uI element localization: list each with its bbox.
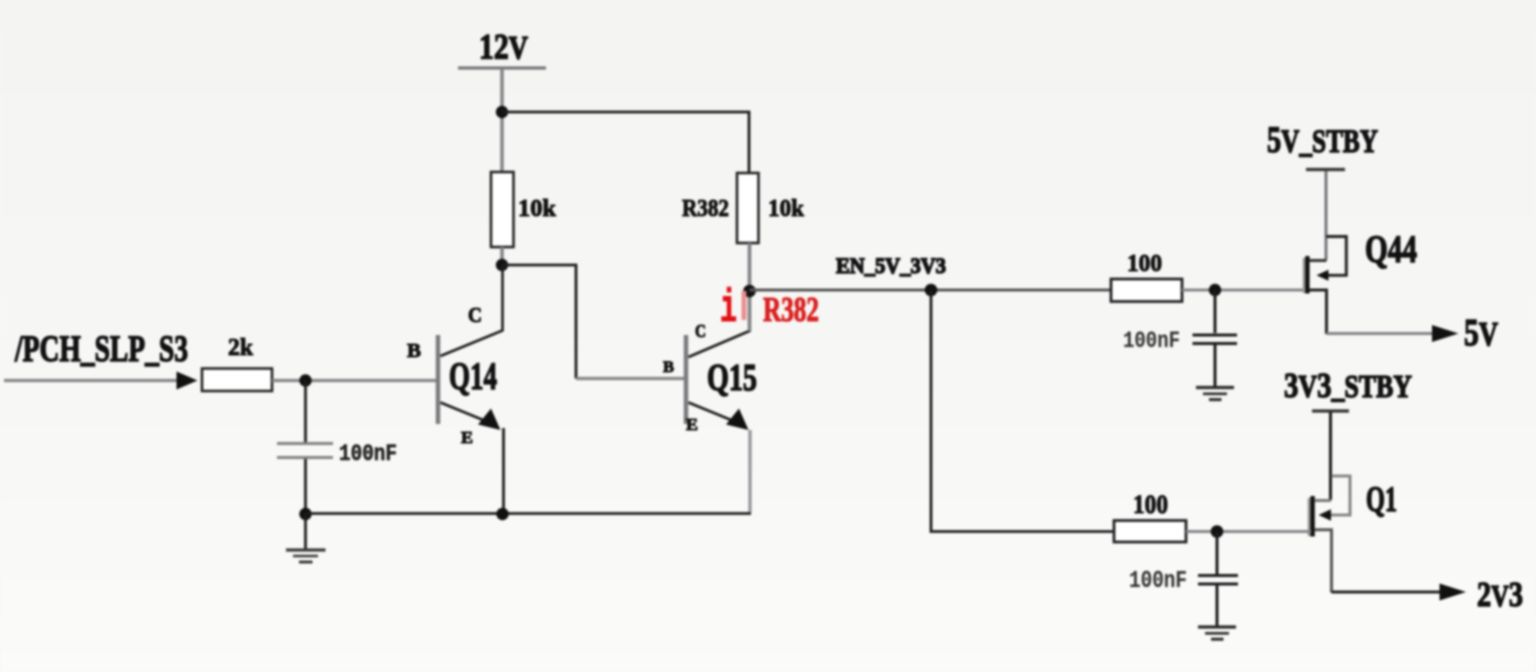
svg-text:E: E	[461, 428, 473, 447]
power 5V_STBY bar	[1306, 168, 1345, 171]
svg-text:C: C	[468, 303, 482, 327]
body arrow	[1317, 270, 1329, 281]
wire 5V out	[1327, 332, 1435, 335]
node Q14 collector	[496, 259, 508, 271]
wire 5V_STBY down	[1325, 171, 1328, 260]
emitter wire down	[502, 428, 505, 513]
arrow 2V3	[1440, 584, 1467, 601]
wire input	[4, 379, 180, 382]
svg-text:Q14: Q14	[449, 355, 497, 398]
node gate/cap lower	[1211, 525, 1224, 538]
ground upper right	[1196, 388, 1234, 400]
node R382/Q15 collector	[743, 285, 756, 298]
wire 10k bottom stub	[500, 247, 504, 265]
node Q14 emitter rail	[496, 508, 508, 520]
svg-text:100: 100	[1127, 251, 1162, 277]
arrow 5V	[1432, 325, 1459, 342]
transistor Q15	[686, 331, 751, 513]
source connector	[1315, 530, 1332, 593]
svg-text:10k: 10k	[518, 196, 557, 222]
svg-text:i: i	[720, 283, 737, 335]
wire collector to Q15 base	[502, 265, 576, 379]
resistor R382 10k	[737, 173, 759, 243]
source connector	[1309, 290, 1327, 334]
wire bottom rail	[306, 512, 752, 515]
wire R382 bottom	[748, 243, 752, 331]
emitter wire down	[748, 430, 751, 512]
collector diagonal	[441, 265, 503, 356]
svg-text:2k: 2k	[228, 335, 254, 361]
wire branch down to lower	[931, 290, 1114, 532]
resistor 100 lower	[1114, 521, 1186, 543]
wire cap bottom	[304, 459, 307, 514]
transistor Q14	[438, 265, 504, 513]
svg-text:B: B	[407, 340, 421, 362]
svg-text:C: C	[695, 321, 706, 341]
svg-text:100nF: 100nF	[339, 441, 397, 467]
svg-text:100nF: 100nF	[1123, 328, 1180, 354]
resistor R 2k	[202, 369, 272, 392]
svg-text:B: B	[663, 359, 674, 376]
ground lower right	[1198, 627, 1236, 639]
wire cap stub upper	[1214, 290, 1217, 333]
svg-text:3V3_STBY: 3V3_STBY	[1284, 366, 1412, 405]
wire resistor to Q14 base	[272, 379, 437, 382]
base bar	[436, 335, 441, 424]
svg-text:100: 100	[1133, 490, 1168, 519]
svg-text:2V3: 2V3	[1477, 575, 1523, 614]
emitter arrow	[478, 409, 501, 431]
ground left	[286, 550, 326, 562]
resistor 100 upper	[1111, 279, 1182, 302]
power 3V3_STBY bar	[1312, 409, 1349, 412]
wire 12V to R382	[502, 112, 749, 174]
node 12V split	[496, 106, 508, 118]
power 12V bar	[458, 66, 546, 69]
capacitor 100nF upper	[1193, 334, 1238, 337]
wire 2V3 out	[1332, 591, 1442, 594]
mosfet Q44	[1304, 237, 1346, 335]
wire net EN_5V_3V3	[750, 289, 1112, 292]
svg-text:R382: R382	[763, 290, 819, 329]
wire ground stub	[304, 514, 307, 549]
wire cap to gnd upper	[1214, 345, 1217, 387]
svg-text:Q44: Q44	[1365, 228, 1417, 271]
resistor 10k left	[491, 172, 514, 247]
svg-text:/PCH_SLP_S3: /PCH_SLP_S3	[14, 329, 188, 370]
input arrow	[177, 372, 198, 390]
capacitor 100nF left	[277, 442, 333, 445]
svg-text:100nF: 100nF	[1129, 568, 1187, 595]
svg-text:E: E	[686, 415, 698, 434]
svg-text:5V: 5V	[1464, 312, 1498, 354]
body loop	[1326, 476, 1350, 515]
wire Q15 base gray	[576, 377, 685, 380]
gate bar	[1308, 498, 1311, 536]
body arrow	[1319, 509, 1332, 520]
wire cap stub lower	[1216, 532, 1219, 575]
wire 3V3_STBY down	[1329, 412, 1332, 500]
red cursor bar	[742, 291, 747, 320]
svg-text:EN_5V_3V3: EN_5V_3V3	[836, 253, 946, 278]
svg-text:R382: R382	[682, 196, 729, 222]
capacitor 100nF lower	[1198, 574, 1238, 577]
body loop	[1323, 237, 1346, 276]
node net split	[925, 284, 938, 297]
channel bar	[1305, 256, 1309, 294]
svg-text:5V_STBY: 5V_STBY	[1267, 120, 1378, 161]
svg-text:12V: 12V	[479, 27, 528, 67]
channel bar	[1310, 496, 1314, 537]
svg-text:10k: 10k	[768, 196, 805, 222]
node gate/cap upper	[1209, 284, 1221, 296]
drain connector	[1309, 259, 1327, 262]
node at cap branch	[299, 374, 311, 386]
wire 12V down	[500, 69, 504, 173]
gate bar	[1303, 258, 1306, 293]
wire cap to gnd lower	[1216, 585, 1219, 626]
wire to gate Q1	[1186, 530, 1311, 533]
emitter diagonal	[689, 403, 737, 423]
svg-text:Q1: Q1	[1366, 479, 1397, 519]
collector diagonal	[689, 331, 751, 358]
base bar	[684, 335, 689, 424]
emitter arrow	[726, 409, 749, 431]
node emitter rail left	[299, 508, 311, 520]
wire to gate Q44	[1182, 289, 1305, 292]
mosfet Q1	[1309, 476, 1350, 593]
emitter diagonal	[441, 403, 489, 423]
wire cap top	[304, 381, 307, 443]
drain connector	[1315, 499, 1332, 502]
svg-text:Q15: Q15	[707, 357, 757, 399]
